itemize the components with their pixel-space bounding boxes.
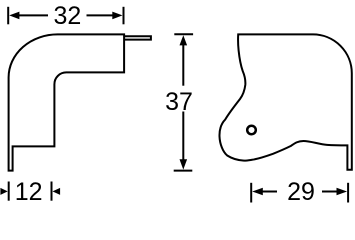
dimension 29: left extension tick xyxy=(250,183,252,203)
dimension 29: left leader line xyxy=(262,191,278,193)
right view: corner-piece side outline xyxy=(219,34,351,169)
dimension 37: top extension tick xyxy=(174,33,193,35)
dimension 32: right extension tick xyxy=(123,7,125,25)
svg-text:37: 37 xyxy=(165,88,193,116)
dimension 12: left extension tick xyxy=(8,182,10,201)
dimension 29: right arrowhead xyxy=(337,188,348,196)
dimension 32: right arrowhead xyxy=(112,12,122,20)
svg-text:29: 29 xyxy=(287,178,315,206)
dimension 32: right leader line xyxy=(87,14,115,16)
dimension 32: left leader line xyxy=(18,14,49,16)
svg-text:32: 32 xyxy=(53,2,81,30)
dimension 29: right extension tick xyxy=(347,183,349,203)
dimension 12: outside left arrowhead xyxy=(0,188,7,195)
dimension 37: lower leader line xyxy=(182,112,184,161)
dimension 37: down arrowhead xyxy=(180,159,188,169)
left view: corner-guard L-profile outline xyxy=(9,34,125,170)
dimension 37: bottom extension tick xyxy=(174,170,193,172)
svg-text:12: 12 xyxy=(15,178,43,206)
dimension 37: upper leader line xyxy=(182,45,184,86)
dimension 32: left extension tick xyxy=(7,7,9,25)
dimension 29: right leader line xyxy=(322,191,339,193)
right view: mounting hole xyxy=(247,126,256,135)
dimension 29: left arrowhead xyxy=(252,188,263,196)
dimension 12: right extension tick xyxy=(51,182,53,201)
dimension 37: up arrowhead xyxy=(180,35,188,45)
dimension 32: left arrowhead xyxy=(9,12,19,20)
dimension 12: outside right arrowhead xyxy=(53,188,61,195)
left view: top lip tab xyxy=(125,36,151,39)
